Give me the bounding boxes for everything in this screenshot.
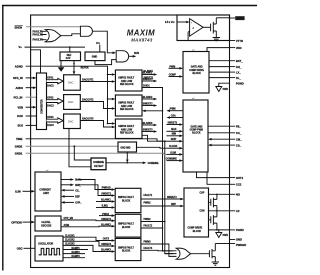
or-gate U1 fault inputs labels: [33, 29, 44, 41]
wire REF into current limit: [61, 195, 81, 198]
and-gate U3: [116, 51, 128, 62]
wire PCI_IN gray into converter: [26, 96, 37, 98]
wire block E row2 label SWDET2: [101, 219, 111, 221]
wire DACOUT3: [80, 117, 115, 128]
wire decode out2: [61, 224, 115, 228]
svg-text:DACOUT1: DACOUT1: [82, 78, 94, 81]
wire blockB out2 SWDET2: [142, 104, 157, 107]
svg-text:NO: NO: [236, 193, 240, 197]
wire COMP into block1: [169, 75, 184, 78]
svg-text:A/DB: A/DB: [64, 224, 70, 227]
wire DAC into converter: [26, 115, 37, 117]
svg-text:OSC: OSC: [17, 247, 23, 251]
wire block D row4: [96, 206, 115, 209]
wire MAX_ rail to block D row1: [78, 180, 115, 191]
node ADD0 pin label: [16, 86, 24, 90]
wire gnd mid down to combine rail: [126, 152, 129, 163]
svg-text:BLANK2: BLANK2: [143, 96, 153, 99]
node RUN label: [134, 53, 139, 55]
wire block3 to LD pin: [209, 210, 230, 212]
svg-text:OFS2: OFS2: [47, 98, 54, 100]
node PCI_IN pin label: [14, 95, 23, 99]
svg-text:OUT3: OUT3: [103, 239, 110, 241]
wire oscillator RAMP3: [63, 255, 85, 258]
svg-text:DAC: DAC: [68, 101, 73, 104]
wire block1 to LX pin: [209, 71, 230, 73]
wire block2 row MIN in: [166, 134, 183, 137]
wire DACOUT1: [80, 78, 115, 82]
svg-text:COMP PWM: COMP PWM: [190, 130, 203, 132]
maxim logo: [127, 28, 155, 42]
svg-text:SWDET2: SWDET2: [167, 197, 177, 199]
wire SHDN (gray): [26, 26, 80, 28]
node SUS pin label: [18, 124, 24, 128]
svg-text:CLOCK2: CLOCK2: [65, 240, 75, 242]
node AGND pin label: [15, 64, 23, 68]
wire CM pin into block2: [208, 138, 230, 141]
node LX pin: [230, 70, 242, 74]
node VTTR pin: [230, 39, 243, 43]
svg-text:BLOCK: BLOCK: [192, 133, 201, 135]
wire oscillator RAMP2: [63, 251, 85, 254]
svg-text:CC_: CC_: [236, 131, 242, 135]
bus arrow converter to DAC2: [47, 98, 64, 108]
svg-text:PWM2: PWM2: [144, 203, 152, 205]
wire OSC into oscillator: [24, 247, 36, 249]
svg-text:TIME: TIME: [16, 137, 23, 141]
node BST pin: [230, 59, 244, 63]
svg-text:CLOCK: CLOCK: [169, 146, 178, 148]
block U23 smps fault block E: [115, 214, 141, 237]
svg-text:COMBINE: COMBINE: [166, 159, 177, 161]
block U24 smps fault block F: [115, 238, 141, 260]
wire to PGND2 pin: [209, 229, 230, 231]
svg-text:DAC: DAC: [17, 114, 23, 118]
wire block2 row SLIM in: [166, 152, 183, 155]
svg-text:PWRGD: PWRGD: [102, 188, 111, 190]
svg-text:RUN: RUN: [134, 53, 139, 55]
wire blockA out2 SWDET1: [142, 79, 157, 82]
wire block F out2 join rail: [141, 247, 163, 252]
svg-text:PWRGD: PWRGD: [236, 243, 246, 247]
svg-text:V+: V+: [19, 45, 23, 49]
wire DACOUT2: [80, 98, 115, 109]
node GND1 pin label: [15, 152, 23, 156]
svg-text:DACOUT3: DACOUT3: [82, 117, 94, 120]
node CC pin: [230, 131, 242, 135]
wire GND2 gray: [26, 145, 118, 147]
node VDD pin: [230, 46, 242, 50]
svg-text:BLANK1: BLANK1: [143, 72, 153, 75]
svg-text:SMPS1 FAULT: SMPS1 FAULT: [118, 77, 134, 80]
node GND pin: [230, 238, 242, 242]
node OFS_IN pin label: [13, 76, 23, 80]
svg-text:VDDQ: VDDQ: [236, 17, 243, 20]
node VSB pin label: [18, 105, 24, 109]
transistor Q1 pass fet: [211, 18, 217, 38]
wire OFS_IN into converter: [26, 77, 37, 80]
svg-text:CC2: CC2: [236, 183, 242, 187]
wire blockC out1 BLANK3: [142, 122, 157, 126]
svg-text:SKIP: SKIP: [171, 139, 177, 141]
transistor Q4 pwrgd fet: [209, 244, 215, 263]
block U22 smps fault block D: [115, 188, 141, 212]
node GND2 pin label: [15, 145, 23, 149]
or-gate U1: [45, 30, 61, 42]
svg-text:RAMP2: RAMP2: [72, 251, 81, 254]
wire PWM into block1: [169, 67, 184, 70]
wire VDD pin to block1: [207, 48, 230, 52]
svg-text:COMP DRIVE: COMP DRIVE: [188, 228, 203, 230]
svg-text:DECODE: DECODE: [41, 225, 51, 227]
wire blockB out1 BLANK2: [142, 96, 157, 100]
wire into combine detect in2: [69, 139, 91, 167]
wire branch to converter: [31, 50, 41, 73]
block U20 four level decode: [35, 216, 61, 231]
svg-text:OSCILLATOR: OSCILLATOR: [38, 242, 53, 245]
wire block1 to DH pin: [209, 66, 230, 68]
svg-text:CONVERTER: CONVERTER: [42, 99, 44, 114]
ground PGND1 triangle: [216, 87, 229, 92]
svg-text:BLOCK: BLOCK: [122, 227, 131, 229]
svg-text:PWR: PWR: [223, 89, 229, 91]
wire op-amp feedback: [188, 32, 190, 41]
node CC2 pin: [230, 183, 242, 187]
svg-text:OVP_: OVP_: [75, 203, 82, 205]
node ILIM pin label: [15, 190, 21, 194]
wire CS pin into block2: [208, 144, 230, 147]
svg-text:OFS_IN: OFS_IN: [13, 76, 23, 80]
svg-text:SWDET2: SWDET2: [101, 219, 111, 221]
wire block2 row SWDET1 in: [166, 122, 183, 125]
node SHDN pin label: [15, 25, 23, 29]
svg-text:MAX8743: MAX8743: [131, 37, 153, 42]
wire block2 row PWM out: [166, 109, 183, 112]
svg-text:PWR: PWR: [223, 235, 229, 237]
svg-text:PGND: PGND: [236, 228, 244, 232]
wire block F out1 to or gate: [141, 241, 173, 256]
wire block D out2 to block3: [141, 203, 184, 208]
wire oscillator CLOCK3: [63, 244, 115, 253]
svg-text:CS_: CS_: [75, 190, 80, 192]
svg-text:FAULT2: FAULT2: [144, 224, 153, 227]
svg-text:OVP_EN: OVP_EN: [64, 218, 74, 220]
wire GND1 gray: [26, 153, 167, 154]
svg-text:LD: LD: [236, 209, 240, 213]
node 0.5 x VCC label: [165, 22, 176, 24]
block U8 gate comp drive block1: [183, 49, 209, 93]
svg-text:MAXIM: MAXIM: [127, 28, 155, 37]
wire V+ to REF: [25, 46, 86, 52]
svg-text:4-LEVEL: 4-LEVEL: [41, 221, 51, 224]
wire oscillator CLOCK1: [63, 235, 115, 241]
wire AND1 output down to AND2: [93, 31, 117, 54]
svg-text:PGND: PGND: [236, 81, 244, 85]
wire oscillator CLOCK2: [63, 240, 115, 248]
dac U11: [64, 95, 81, 110]
wire block D row3: [96, 199, 115, 203]
svg-text:SWDET1: SWDET1: [143, 79, 153, 81]
svg-text:PCI_IN: PCI_IN: [14, 95, 23, 99]
node V+ pin label: [19, 45, 23, 49]
wire block2 row SKIP in from rail2: [164, 139, 183, 142]
block U18 combine detect: [91, 158, 106, 170]
svg-text:SWDET3: SWDET3: [143, 130, 153, 132]
dac U12: [64, 114, 81, 129]
wire REF fat arrow distribution: [58, 61, 65, 72]
svg-text:CSN: CSN: [200, 211, 205, 213]
wire block F row1 label OUT3: [103, 239, 110, 241]
wire rail branch into blockB: [142, 110, 163, 113]
wire combine detect output: [106, 162, 159, 165]
svg-text:VSB: VSB: [18, 105, 24, 109]
node DL pin: [230, 76, 242, 80]
svg-text:BST_: BST_: [236, 59, 243, 63]
svg-text:VTTR: VTTR: [236, 39, 243, 43]
regulator U5 GMD box: [85, 52, 105, 61]
svg-text:CM_: CM_: [236, 137, 242, 141]
ground PGND2 triangle: [216, 230, 229, 238]
ground under Q1: [213, 38, 220, 41]
svg-text:DHO1: DHO1: [143, 86, 150, 88]
wire or output to Q4 gate: [191, 253, 210, 255]
wire bus branch into fault block C: [107, 122, 116, 125]
svg-text:DH_: DH_: [236, 65, 242, 69]
svg-text:DACOUT2: DACOUT2: [82, 98, 94, 101]
wire block F row3 label BLANK3: [101, 249, 111, 252]
svg-text:SMPS3 FAULT: SMPS3 FAULT: [118, 246, 134, 249]
svg-text:REF: REF: [67, 55, 72, 57]
svg-text:DAC1: DAC1: [47, 85, 54, 88]
svg-text:ILIM: ILIM: [15, 190, 21, 194]
svg-text:SMPS3 FAULT: SMPS3 FAULT: [118, 125, 134, 128]
svg-text:AGND: AGND: [15, 64, 23, 68]
svg-text:SMPS2 FAULT: SMPS2 FAULT: [118, 102, 134, 105]
wire block E out1 to or gate: [141, 219, 166, 223]
wire bus branch into fault block A: [107, 73, 116, 76]
svg-text:0.5 x VCC: 0.5 x VCC: [165, 22, 176, 24]
wire block2 to CC pin: [208, 132, 230, 134]
svg-text:PWM: PWM: [170, 66, 176, 68]
svg-text:BLANK3: BLANK3: [101, 249, 111, 252]
node PWM label: [170, 66, 176, 68]
wire AND2 output RUN: [129, 55, 136, 58]
node VCC label: [96, 43, 101, 45]
wire block2 bottom to CC2 pin: [207, 172, 230, 184]
svg-text:ILIM1: ILIM1: [102, 206, 109, 208]
svg-text:GND MID: GND MID: [120, 147, 130, 149]
svg-text:GATE AND: GATE AND: [191, 66, 203, 69]
page border frame: [2, 6, 257, 271]
block U21 oscillator: [35, 236, 63, 261]
wire REF to DAC1: [73, 61, 76, 75]
svg-text:2.0V: 2.0V: [66, 58, 71, 60]
node CM pin: [230, 137, 243, 141]
block U16 gate comp pwm block2: [183, 98, 208, 172]
svg-text:CURRENT: CURRENT: [39, 190, 51, 192]
or-gate U1 input stubs: [41, 31, 47, 39]
node BLANK1 label: [144, 70, 154, 73]
svg-text:FAULT3: FAULT3: [144, 247, 153, 250]
node PGND2 pin: [230, 228, 244, 232]
svg-text:SHDN: SHDN: [15, 26, 23, 30]
wire block D out1 to block3: [141, 194, 184, 200]
svg-text:AND LOW: AND LOW: [121, 80, 133, 83]
svg-text:BLOCK: BLOCK: [122, 201, 131, 203]
svg-text:PWM: PWM: [170, 109, 176, 111]
bus arrow converter to DAC1: [47, 78, 64, 88]
wire decode out1: [61, 218, 115, 222]
node COMP label: [169, 75, 176, 77]
svg-text:MAX: MAX: [171, 128, 177, 131]
svg-text:BLOCK: BLOCK: [193, 231, 202, 233]
wire blockC out3 rail2: [142, 135, 173, 253]
svg-text:VDD: VDD: [236, 46, 242, 50]
block U19 current limit: [35, 170, 61, 211]
svg-text:SWDET2: SWDET2: [143, 104, 153, 106]
svg-text:BLANK1: BLANK1: [101, 199, 111, 202]
wire OVP_ into current limit: [61, 201, 82, 204]
svg-text:COMBINE: COMBINE: [148, 163, 159, 165]
node OUT2 pin: [230, 176, 244, 180]
node REFOK label: [81, 68, 89, 70]
wire block2 row COMBINE in: [166, 159, 183, 162]
svg-text:SUS: SUS: [18, 124, 24, 128]
transistor Q3: [209, 211, 217, 230]
svg-text:PWM2: PWM2: [144, 219, 152, 221]
svg-text:CS_: CS_: [236, 143, 242, 147]
svg-text:DAC: DAC: [68, 82, 73, 85]
node DH pin: [230, 65, 242, 69]
wire SUS into converter: [26, 125, 37, 127]
ground under Q4: [212, 262, 219, 265]
svg-text:RAMP3: RAMP3: [72, 255, 81, 258]
regulator U6 LDO box top right: [177, 15, 230, 41]
svg-text:SMPS1 FAULT: SMPS1 FAULT: [118, 196, 134, 199]
svg-text:SLIM: SLIM: [170, 152, 176, 154]
wire blockA out3 DHO1 rail: [142, 86, 173, 251]
node FB pin: [230, 124, 242, 128]
wire blockC out2 SWDET3: [142, 130, 157, 133]
regulator U4 REF box: [60, 52, 81, 61]
svg-text:CSA: CSA: [171, 114, 176, 117]
wire OR1 output to AND1: [61, 34, 81, 36]
svg-text:AND LOW: AND LOW: [121, 128, 133, 131]
svg-text:A: A: [191, 26, 194, 30]
wire OPTION into decode: [23, 221, 36, 224]
dac U10: [64, 75, 81, 90]
svg-text:LX_: LX_: [236, 70, 241, 74]
svg-text:GND2: GND2: [15, 145, 23, 149]
svg-text:OPTION: OPTION: [11, 220, 21, 224]
svg-text:COMP DRIVE: COMP DRIVE: [189, 70, 204, 72]
wire current limit MAX_ out: [61, 178, 82, 181]
node CS pin: [230, 143, 242, 147]
svg-text:BLANK2: BLANK2: [101, 223, 111, 226]
and-gate U2: [80, 26, 92, 36]
wire block1 to DL pin: [209, 77, 230, 79]
svg-text:GATE AND: GATE AND: [191, 125, 203, 128]
wire block2 to FB pin: [208, 125, 230, 127]
svg-text:REF: REF: [75, 197, 80, 199]
wire current limit MIN_ out: [61, 184, 82, 187]
wire VCC into GMD: [99, 45, 101, 52]
wire block2 row CLOCK in: [166, 146, 183, 149]
svg-text:MIN: MIN: [172, 134, 177, 136]
svg-text:RAMP1: RAMP1: [72, 247, 81, 250]
wire block E row1: [99, 214, 115, 217]
svg-text:FAULT1: FAULT1: [144, 194, 153, 197]
block U13 smps1 fault block A: [115, 70, 142, 91]
wire block1 to BST pin: [209, 60, 230, 62]
wire into op-amp plus input: [177, 21, 190, 23]
block U15 smps3 fault block C: [115, 119, 142, 139]
svg-text:OFS1: OFS1: [47, 78, 54, 80]
svg-text:REFOK: REFOK: [81, 68, 89, 70]
svg-text:OFS3: OFS3: [47, 117, 54, 119]
svg-text:GMD: GMD: [92, 56, 98, 58]
svg-text:GND1: GND1: [15, 152, 23, 156]
wire ILIM into current limit: [23, 190, 36, 193]
svg-text:DAC2: DAC2: [47, 105, 54, 108]
wire PGND pin to power ground triangle: [219, 83, 230, 86]
wire CS_ into current limit: [61, 189, 81, 192]
node TIME pin label: [16, 137, 23, 141]
svg-text:OUT2: OUT2: [236, 176, 244, 180]
svg-text:CLOCK1: CLOCK1: [65, 235, 75, 237]
wire TIME rail: [26, 139, 165, 141]
svg-text:REF BLOCK: REF BLOCK: [120, 84, 134, 86]
op-amp U7: [190, 19, 204, 36]
node OSC pin label: [17, 247, 23, 251]
wire Q4 drain to PWRGD pin: [215, 243, 229, 245]
svg-text:DAC: DAC: [68, 120, 73, 123]
wire MIN_ rail to block D row2: [78, 185, 115, 197]
svg-text:AND LOW: AND LOW: [121, 105, 133, 108]
wire block2 row CSA out: [166, 114, 183, 118]
wire block3 to NO pin: [209, 194, 230, 196]
wire DAC3 tap to time rail: [68, 129, 70, 140]
svg-text:DRP: DRP: [171, 204, 176, 206]
svg-text:DL_: DL_: [236, 76, 242, 80]
svg-text:DETECT: DETECT: [94, 166, 104, 168]
svg-text:BLOCK: BLOCK: [193, 73, 202, 75]
svg-text:GND: GND: [236, 238, 242, 242]
or-gate U26 fault or: [163, 248, 191, 259]
wire block2 bottom to OUT2 pin: [197, 172, 230, 178]
wire gnd mid out: [137, 146, 167, 149]
node OPTION pin label: [11, 220, 21, 224]
IC boundary box: [31, 15, 230, 268]
wire bus branch into fault block B: [107, 98, 116, 101]
svg-text:SWDET1: SWDET1: [101, 194, 111, 196]
svg-text:ADD0: ADD0: [16, 86, 24, 90]
wire block F row2 label SWDET3: [101, 244, 111, 246]
svg-text:BLOCK: BLOCK: [122, 251, 131, 253]
wire blockA out1 BLANK1: [142, 72, 157, 76]
wire block E row3 label BLANK2: [101, 223, 111, 226]
svg-text:DAC3: DAC3: [47, 124, 54, 127]
svg-text:SMPS2 FAULT: SMPS2 FAULT: [118, 223, 134, 226]
block U17 gnd mid box: [118, 142, 137, 152]
wire oscillator RAMP1: [63, 247, 88, 250]
node DAC pin label: [17, 114, 23, 118]
wire VSB into converter: [26, 106, 37, 109]
transistor Q2: [209, 194, 217, 211]
right pin labels column: [230, 16, 247, 247]
wire into combine detect in1: [73, 145, 91, 160]
wire ADD0 into converter: [26, 86, 37, 89]
